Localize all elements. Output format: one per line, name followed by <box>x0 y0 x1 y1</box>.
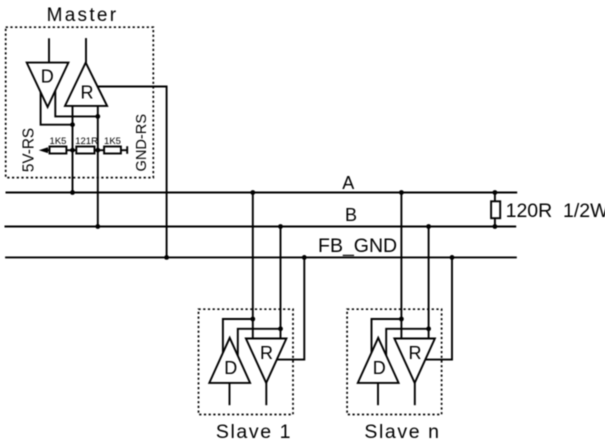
junction: slave 1 drop on bus FB_GND <box>302 255 307 260</box>
wire: bus A drop to slave n <box>400 193 402 339</box>
wire: master vertical to bus B <box>97 106 99 227</box>
wire: bus FB_GND drop to slave n R <box>425 257 452 359</box>
wire: D output left branch to node A vertical <box>41 92 73 125</box>
junction: slave 1 A node branch <box>250 317 255 322</box>
wire: bus A drop to slave 1 <box>252 193 254 339</box>
svg-text:D: D <box>373 358 386 378</box>
wire: R output stub (slave 1) <box>265 383 267 405</box>
bus line A <box>6 192 518 194</box>
svg-text:R: R <box>409 343 422 363</box>
receiver R (slave n) <box>394 339 435 383</box>
svg-text:1K5: 1K5 <box>50 136 67 147</box>
bus line FB_GND <box>5 256 517 258</box>
junction: slave n B node branch <box>426 326 431 331</box>
junction: slave n drop on bus B <box>426 224 431 229</box>
svg-text:GND-RS: GND-RS <box>134 114 150 172</box>
resistor R2 121R <box>76 147 94 154</box>
svg-text:Slave 1: Slave 1 <box>216 421 292 440</box>
junction: master on bus FB_GND <box>164 255 169 260</box>
wire: bus B drop to slave 1 <box>280 227 282 339</box>
junction: resistor row on B vertical <box>95 148 100 153</box>
junction: RT on bus A <box>493 190 498 195</box>
junction: resistor row on A vertical <box>70 148 75 153</box>
svg-text:A: A <box>342 173 354 193</box>
svg-text:5V-RS: 5V-RS <box>20 128 37 172</box>
junction: slave 1 drop on bus B <box>278 224 283 229</box>
wire: D input stub <box>48 38 50 62</box>
wire: A branch to D (slave 1) <box>223 319 253 353</box>
driver D (slave 1) <box>209 338 250 383</box>
wire: bus FB_GND drop to slave 1 R <box>277 257 305 359</box>
svg-text:1K5: 1K5 <box>104 136 121 147</box>
junction: slave 1 B node branch <box>278 326 283 331</box>
wire: R2 to R3 <box>95 149 105 151</box>
termination resistor RT 120R <box>491 193 500 227</box>
wire: bus B drop to slave n <box>428 227 430 339</box>
driver D (master) <box>27 63 69 107</box>
slave 1 enclosure dashed box <box>199 309 294 414</box>
svg-text:B: B <box>345 205 357 225</box>
svg-text:Master: Master <box>47 5 119 26</box>
junction: slave n drop on bus A <box>399 190 404 195</box>
master enclosure dashed box <box>6 27 154 177</box>
svg-text:121R: 121R <box>75 136 98 147</box>
svg-text:D: D <box>41 66 54 86</box>
wire: B branch to D (slave 1) <box>238 329 281 356</box>
wire: D output stub (slave 1) <box>229 383 231 405</box>
wire: B branch to D (slave n) <box>386 329 428 356</box>
wire: D output right branch to node B vertical <box>55 91 98 117</box>
junction: slave n A node branch <box>399 317 404 322</box>
wire: 5V-RS arrow <box>39 147 50 153</box>
bus line B <box>5 226 517 228</box>
svg-text:R: R <box>81 83 94 103</box>
svg-text:Slave n: Slave n <box>364 421 440 440</box>
junction: slave 1 drop on bus A <box>250 190 255 195</box>
resistor R3 1K5 <box>104 147 121 154</box>
wire: D output stub (slave n) <box>377 383 379 405</box>
wire: R output stub (slave n) <box>414 383 416 405</box>
slave n enclosure dashed box <box>347 309 442 414</box>
driver D (slave n) <box>358 338 399 383</box>
junction: RT on bus B <box>493 224 498 229</box>
wire: master vertical to bus A <box>72 106 74 193</box>
svg-text:FB_GND: FB_GND <box>318 235 397 257</box>
svg-text:120R 1/2W: 120R 1/2W <box>506 200 605 222</box>
wire: master R output to bus FB_GND <box>98 87 167 258</box>
junction: D output on A vertical <box>70 122 75 127</box>
wire: R3 to GND-RS terminal <box>121 146 127 154</box>
junction: D output on B vertical <box>95 114 100 119</box>
svg-text:D: D <box>224 358 237 378</box>
junction: master on bus B <box>95 224 100 229</box>
svg-text:R: R <box>260 343 273 363</box>
wire: A branch to D (slave n) <box>372 319 402 353</box>
junction: slave n drop on bus FB_GND <box>450 255 455 260</box>
junction: master on bus A <box>70 190 75 195</box>
receiver R (slave 1) <box>246 339 287 383</box>
receiver R (master) <box>65 63 107 106</box>
wire: R1 to R2 <box>66 149 76 151</box>
resistor R1 1K5 <box>50 147 67 154</box>
wire: R input stub <box>85 38 87 63</box>
